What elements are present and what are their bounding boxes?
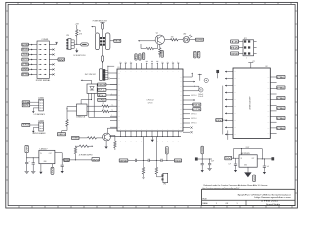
svg-text:GND: GND [254,175,256,181]
svg-text:OUT: OUT [49,153,52,155]
svg-text:R4: R4 [79,31,81,33]
svg-text:1uF: 1uF [267,166,270,168]
svg-text:4 FEB 2011: 4 FEB 2011 [261,200,278,202]
svg-text:VBUS: VBUS [98,84,106,86]
svg-text:Released under the Creative Co: Released under the Creative Commons Attr… [204,184,269,187]
svg-text:D-: D- [98,95,106,97]
svg-text:DCD: DCD [139,54,141,60]
svg-text:USBLC6: USBLC6 [76,117,85,119]
svg-text:+: + [29,161,30,163]
svg-text:GND: GND [22,69,28,71]
svg-text:CTS: CTS [22,64,28,66]
svg-text:TXO: TXO [22,125,29,127]
svg-text:GND: GND [231,53,239,55]
svg-text:SDA: SDA [23,101,30,104]
svg-text:POWER SELECTOR: POWER SELECTOR [93,20,108,22]
svg-text:GPIO.0: GPIO.0 [191,95,197,97]
svg-text:GND: GND [44,161,47,163]
svg-text:SparkFun CP2102 USB to Serial: SparkFun CP2102 USB to Serial breakout [238,193,292,196]
svg-text:RS232 SERIAL: RS232 SERIAL [36,79,51,82]
svg-text:MCP1825: MCP1825 [241,153,250,155]
svg-text:U2: U2 [266,66,268,68]
svg-text:CTS: CTS [193,109,201,111]
svg-text:QFN28: QFN28 [148,102,153,104]
svg-text:VDD: VDD [175,160,182,162]
svg-text:JP4: JP4 [163,184,166,186]
svg-text:VOUT: VOUT [246,147,250,149]
svg-text:22: 22 [103,109,105,111]
svg-text:DC BLUETOOTH: DC BLUETOOTH [73,55,86,57]
svg-text:RTS: RTS [193,105,201,107]
svg-text:PAGE: PAGE [203,202,209,205]
svg-text:22: 22 [103,103,105,105]
svg-text:Q1: Q1 [156,33,158,35]
svg-text:DC IN 5V: DC IN 5V [85,74,98,76]
svg-text:10uF: 10uF [198,96,203,98]
svg-text:GPIO.0: GPIO.0 [191,113,197,115]
svg-text:3V3: 3V3 [52,168,54,174]
svg-text:Seeed Studio: Seeed Studio [266,203,280,206]
svg-text:1: 1 [237,203,238,205]
svg-text:GND: GND [120,160,128,162]
svg-text:ATMEGA328P: ATMEGA328P [249,96,252,110]
svg-text:JD POWER SUPPLY: JD POWER SUPPLY [79,154,93,156]
svg-text:GPIO.0: GPIO.0 [191,123,197,125]
svg-text:330: 330 [171,37,174,39]
svg-text:4.7K: 4.7K [79,34,82,36]
svg-text:IN: IN [40,153,41,155]
svg-text:PWREN: PWREN [72,138,79,140]
svg-text:GPIO.0: GPIO.0 [191,118,197,120]
svg-text:U1: U1 [118,67,120,69]
svg-text:LM1117: LM1117 [40,149,48,151]
svg-text:RXD: RXD [22,49,28,51]
svg-text:IN: IN [241,158,242,160]
svg-text:100nF: 100nF [198,94,203,96]
svg-text:DTR: DTR [22,44,28,46]
svg-text:GND: GND [244,165,247,167]
svg-text:FILE:: FILE: [203,199,208,201]
svg-text:JP6: JP6 [66,35,69,37]
svg-text:10uF: 10uF [211,160,214,162]
svg-text:VBUS: VBUS [114,41,120,43]
svg-text:1: 1 [216,203,217,205]
svg-text:http://www.sparkfun.com: http://www.sparkfun.com [255,196,292,199]
svg-text:VCC: VCC [22,59,28,61]
svg-text:CP2102: CP2102 [146,100,154,102]
svg-text:TXD: TXD [22,54,28,56]
svg-text:OUT: OUT [252,158,255,160]
svg-text:RTS: RTS [22,74,28,76]
svg-text:VCC: VCC [252,61,255,63]
svg-text:VBUS: VBUS [58,134,66,136]
svg-text:GND: GND [98,100,106,102]
svg-text:1uF: 1uF [229,164,232,166]
svg-text:SUSPEND: SUSPEND [196,40,203,42]
